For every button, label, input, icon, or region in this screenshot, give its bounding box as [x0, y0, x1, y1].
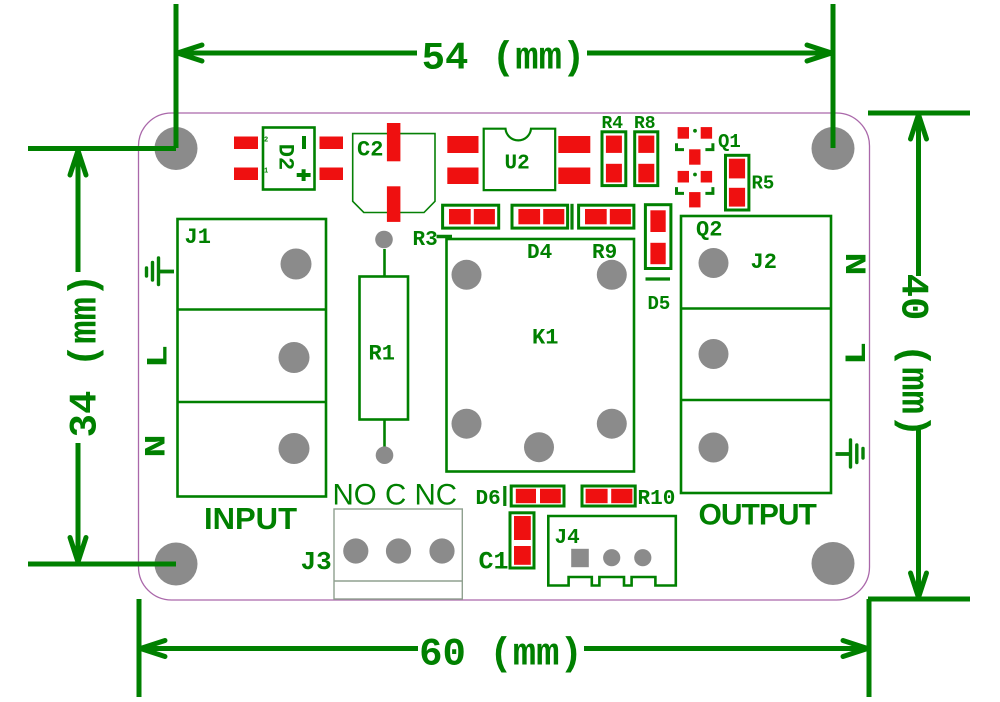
U2 pad left 2	[447, 168, 478, 185]
resistor R1	[360, 277, 409, 420]
svg-text:J1: J1	[185, 225, 211, 250]
C2 pad top	[387, 123, 401, 161]
arrowhead left	[178, 45, 203, 61]
arrow line left segment	[178, 51, 417, 56]
connector J3	[334, 509, 462, 599]
arrow line upper segment	[76, 151, 81, 272]
svg-text:40 (mm): 40 (mm)	[891, 274, 935, 438]
svg-text:N: N	[140, 434, 174, 457]
arrowhead right	[843, 641, 868, 657]
dimension 40mm right	[868, 113, 970, 599]
resistor R9 footprint	[579, 205, 634, 228]
svg-text:R9: R9	[592, 242, 617, 265]
mounting hole bottom-right	[812, 542, 855, 585]
extension line right	[831, 4, 836, 148]
svg-text:NO C NC: NO C NC	[333, 479, 458, 512]
K1 pin hole bottom-left	[452, 409, 482, 439]
R1 wire top	[383, 249, 386, 277]
svg-text:R5: R5	[752, 173, 775, 195]
svg-text:OUTPUT: OUTPUT	[699, 499, 817, 532]
U2 pad right 1	[558, 136, 590, 153]
svg-text:INPUT: INPUT	[204, 501, 297, 536]
arrow line lower segment	[76, 443, 81, 562]
svg-text:34 (mm): 34 (mm)	[64, 274, 108, 438]
svg-text:C2: C2	[357, 138, 383, 163]
arrow line right segment	[584, 646, 867, 651]
extension line left	[174, 4, 179, 148]
J2 pin hole 3	[699, 433, 729, 463]
C2 pad bottom	[387, 186, 401, 222]
D2 minus sign	[302, 136, 306, 149]
diode D2 body	[263, 128, 315, 190]
svg-text:D6: D6	[476, 488, 501, 511]
extension line left	[137, 599, 142, 697]
extension line bottom	[868, 597, 970, 602]
D2 pad right 2	[320, 168, 344, 181]
D2 pad right 1	[320, 137, 344, 150]
capacitor C2 body	[353, 134, 435, 213]
U2 pad right 2	[558, 168, 590, 185]
resistor R5 footprint	[726, 155, 749, 210]
svg-text:2: 2	[264, 137, 268, 145]
mark near box A	[437, 235, 453, 239]
D4 cathode mark	[570, 204, 573, 230]
J1 pin hole 1	[281, 249, 312, 280]
relay K1	[447, 239, 635, 472]
svg-text:L: L	[142, 345, 176, 368]
transistor Q1 footprint lower	[677, 171, 713, 208]
arrow line left segment	[141, 646, 418, 651]
arrowhead up	[911, 115, 927, 140]
arrow line lower segment	[916, 429, 921, 597]
svg-text:C1: C1	[479, 548, 509, 577]
K1 pin hole top-left	[452, 260, 482, 290]
mounting hole top-right	[812, 127, 855, 170]
svg-text:Q2: Q2	[696, 218, 722, 243]
J2 pin hole 2	[699, 339, 729, 369]
dimension 54mm top	[176, 4, 833, 148]
arrowhead right	[807, 45, 832, 61]
R1 wire bottom	[383, 420, 386, 450]
resistor R10 footprint	[582, 486, 635, 506]
pad footprint row box A	[443, 205, 499, 228]
capacitor C1 footprint	[510, 513, 534, 568]
R1 pad hole bottom	[376, 446, 394, 464]
transistor Q1 footprint upper	[677, 127, 713, 165]
K1 pin hole bottom-right	[597, 409, 627, 439]
J2 pin hole 1	[699, 248, 729, 278]
J3 pin hole 1	[343, 538, 368, 563]
arrowhead left	[141, 641, 166, 657]
svg-text:R8: R8	[634, 114, 656, 134]
K1 pin hole top-right	[597, 260, 627, 290]
resistor R8 footprint	[635, 132, 658, 186]
svg-text:D2: D2	[273, 144, 298, 170]
J3 pin hole 3	[429, 538, 454, 563]
svg-text:Q1: Q1	[718, 131, 741, 153]
D2 pad left 1	[234, 137, 258, 150]
diode D4 footprint	[512, 205, 568, 228]
D6 cathode mark	[503, 486, 506, 506]
svg-text:N: N	[841, 252, 875, 275]
extension line bottom	[28, 562, 176, 567]
arrow line upper segment	[916, 115, 921, 276]
ground symbol right	[836, 440, 864, 467]
svg-text:R1: R1	[369, 342, 395, 367]
svg-text:R4: R4	[602, 114, 624, 134]
extension line right	[867, 599, 872, 697]
svg-text:K1: K1	[532, 326, 558, 351]
D2 pad left 2	[234, 168, 258, 181]
J4 pin hole 2	[603, 549, 620, 566]
D5 cathode mark	[646, 277, 671, 280]
D2 plus sign	[297, 169, 311, 181]
mounting hole bottom-left	[155, 543, 198, 586]
J1 pin hole 3	[279, 433, 310, 464]
board outline	[139, 113, 870, 600]
resistor R4 footprint	[602, 132, 626, 186]
U2 pad left 1	[447, 136, 478, 153]
J4 pin hole 3	[634, 549, 651, 566]
diode D5 footprint	[645, 205, 671, 269]
J1 pin hole 2	[279, 342, 310, 373]
arrowhead down	[70, 538, 86, 563]
IC U2 body	[484, 129, 556, 190]
svg-text:R10: R10	[638, 488, 676, 511]
svg-text:60 (mm): 60 (mm)	[419, 633, 583, 677]
extension line top	[28, 146, 176, 151]
ground symbol left	[147, 258, 175, 285]
K1 pin hole bottom-center	[524, 432, 554, 462]
connector J1	[178, 219, 327, 497]
extension line top	[868, 111, 970, 116]
svg-text:D4: D4	[527, 242, 552, 265]
dimension 34mm left	[28, 149, 176, 565]
mounting hole top-left	[155, 127, 198, 170]
diode D6 footprint	[511, 486, 564, 506]
R3 pad hole	[375, 231, 393, 249]
J4 pad square	[571, 549, 589, 567]
arrowhead up	[70, 151, 86, 176]
connector J4	[548, 516, 676, 586]
svg-text:D5: D5	[648, 293, 671, 315]
svg-text:L: L	[841, 342, 875, 365]
svg-text:54 (mm): 54 (mm)	[422, 37, 586, 81]
svg-text:J4: J4	[555, 527, 580, 550]
svg-text:J3: J3	[301, 547, 332, 577]
svg-text:1: 1	[264, 168, 268, 176]
arrowhead down	[911, 573, 927, 598]
J3 pin hole 2	[386, 538, 411, 563]
dimension 60mm bottom	[139, 599, 869, 697]
svg-text:J2: J2	[751, 250, 777, 275]
svg-text:R3: R3	[413, 229, 438, 252]
arrow line right segment	[587, 51, 831, 56]
connector J2	[681, 216, 831, 493]
svg-text:U2: U2	[505, 153, 530, 176]
